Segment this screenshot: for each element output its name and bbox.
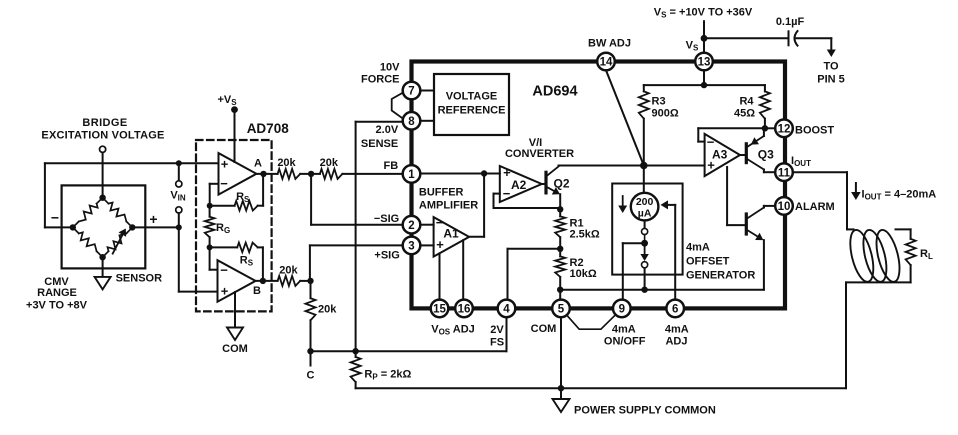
svg-text:R4: R4	[739, 96, 754, 108]
svg-text:VOS ADJ: VOS ADJ	[431, 324, 475, 337]
svg-text:1: 1	[408, 169, 415, 181]
svg-text:8: 8	[408, 116, 415, 128]
svg-text:C: C	[307, 370, 315, 382]
svg-text:AD694: AD694	[532, 84, 577, 100]
svg-text:RP = 2kΩ: RP = 2kΩ	[364, 369, 411, 382]
svg-text:A: A	[254, 158, 262, 170]
svg-text:ALARM: ALARM	[795, 201, 835, 213]
svg-text:3: 3	[408, 241, 414, 253]
svg-text:A1: A1	[443, 227, 459, 241]
svg-text:200: 200	[636, 196, 654, 208]
svg-text:FB: FB	[384, 160, 399, 172]
svg-text:20k: 20k	[318, 304, 337, 316]
svg-text:12: 12	[778, 124, 791, 136]
svg-text:BW ADJ: BW ADJ	[588, 38, 631, 50]
svg-text:VOLTAGE: VOLTAGE	[446, 91, 498, 103]
svg-text:45Ω: 45Ω	[734, 108, 755, 120]
svg-text:20k: 20k	[320, 157, 339, 169]
svg-text:µA: µA	[638, 208, 652, 220]
svg-text:ON/OFF: ON/OFF	[604, 336, 646, 348]
svg-text:FS: FS	[490, 337, 504, 349]
svg-text:2V: 2V	[490, 324, 504, 336]
svg-text:ADJ: ADJ	[665, 336, 687, 348]
svg-text:TO: TO	[823, 61, 839, 73]
svg-text:14: 14	[600, 57, 613, 69]
svg-text:+SIG: +SIG	[374, 250, 399, 262]
svg-text:CONVERTER: CONVERTER	[505, 148, 574, 160]
svg-text:900Ω: 900Ω	[652, 108, 679, 120]
svg-text:+: +	[149, 211, 157, 227]
svg-text:7: 7	[408, 86, 414, 98]
svg-text:13: 13	[698, 57, 711, 69]
svg-text:5: 5	[558, 304, 565, 316]
svg-text:0.1µF: 0.1µF	[776, 16, 805, 28]
svg-text:20k: 20k	[277, 157, 296, 169]
svg-text:SENSE: SENSE	[361, 138, 398, 150]
svg-text:4mA: 4mA	[686, 242, 710, 254]
svg-text:Q3: Q3	[758, 147, 774, 161]
svg-text:SENSOR: SENSOR	[116, 273, 163, 285]
svg-text:REFERENCE: REFERENCE	[438, 105, 506, 117]
svg-text:OFFSET: OFFSET	[686, 256, 730, 268]
svg-text:20k: 20k	[279, 265, 298, 277]
svg-text:FORCE: FORCE	[361, 74, 400, 86]
svg-text:AMPLIFIER: AMPLIFIER	[419, 199, 478, 211]
svg-text:A3: A3	[712, 147, 728, 161]
svg-text:10V: 10V	[380, 62, 400, 74]
svg-text:11: 11	[778, 167, 791, 179]
svg-text:−: −	[220, 263, 228, 278]
svg-text:+: +	[221, 156, 229, 171]
svg-text:B: B	[253, 285, 261, 297]
svg-text:9: 9	[619, 304, 625, 316]
svg-text:POWER SUPPLY COMMON: POWER SUPPLY COMMON	[574, 405, 716, 417]
svg-text:COM: COM	[222, 343, 248, 355]
svg-text:RANGE: RANGE	[37, 287, 77, 299]
svg-text:VS = +10V TO +36V: VS = +10V TO +36V	[654, 7, 753, 20]
svg-text:COM: COM	[531, 323, 557, 335]
svg-text:2.0V: 2.0V	[376, 124, 399, 136]
svg-text:10: 10	[778, 201, 791, 213]
svg-text:BRIDGE: BRIDGE	[82, 117, 127, 129]
svg-text:2: 2	[408, 220, 414, 232]
svg-text:2.5kΩ: 2.5kΩ	[570, 228, 600, 240]
svg-text:4: 4	[503, 304, 510, 316]
svg-text:BUFFER: BUFFER	[419, 186, 464, 198]
svg-text:−: −	[51, 210, 59, 226]
svg-text:PIN 5: PIN 5	[817, 74, 845, 86]
svg-text:+: +	[221, 284, 229, 299]
svg-text:4mA: 4mA	[612, 324, 636, 336]
svg-text:−SIG: −SIG	[374, 213, 399, 225]
svg-text:R3: R3	[652, 96, 666, 108]
svg-text:15: 15	[433, 304, 446, 316]
svg-text:GENERATOR: GENERATOR	[686, 270, 755, 282]
svg-text:BOOST: BOOST	[795, 125, 834, 137]
svg-text:+: +	[503, 165, 511, 180]
svg-text:16: 16	[458, 304, 471, 316]
svg-text:EXCITATION VOLTAGE: EXCITATION VOLTAGE	[41, 130, 164, 142]
svg-text:−: −	[220, 176, 228, 191]
svg-text:10kΩ: 10kΩ	[570, 268, 597, 280]
svg-text:AD708: AD708	[247, 121, 290, 136]
svg-text:−: −	[503, 186, 511, 201]
svg-text:A2: A2	[511, 178, 527, 192]
svg-text:+3V TO +8V: +3V TO +8V	[26, 300, 88, 312]
svg-text:Q2: Q2	[554, 177, 570, 191]
svg-text:4mA: 4mA	[665, 324, 689, 336]
svg-text:6: 6	[672, 304, 678, 316]
